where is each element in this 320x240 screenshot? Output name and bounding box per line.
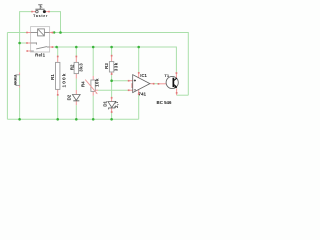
svg-text:2,7: 2,7: [114, 101, 119, 108]
op-amp IC1: minus mark: [134, 89, 136, 91]
relay Rel1: contact arm: [36, 47, 47, 49]
wire: Taster right down to coil bus: [49, 12, 60, 33]
wire: emitter to right rail: [177, 94, 189, 96]
relay Rel1: coil box: [38, 29, 45, 36]
LED D2: triangle: [72, 95, 80, 101]
wire: contact bus y=47: [53, 47, 176, 73]
svg-text:R1: R1: [50, 74, 55, 80]
battery AKKU: pin top: [19, 72, 21, 75]
relay Rel1: coil lead right: [44, 32, 49, 34]
wire: node A down to zener D1: [111, 81, 113, 98]
relay Rel1: coil pin left: [27, 32, 31, 34]
op-amp IC1: V- pin: [138, 90, 140, 95]
svg-text:R3: R3: [104, 63, 109, 69]
op-amp IC1: inverting input pin: [128, 89, 132, 91]
resistor R2: pin top: [75, 56, 77, 62]
wire: LED D2 bottom: [75, 105, 77, 119]
wire: op-amp V- to bottom bus: [138, 94, 140, 119]
op-amp IC1: offset marker: [131, 83, 133, 88]
transistor T1: circle: [166, 76, 178, 88]
transistor T1: base pin: [158, 83, 166, 85]
trimmer R4: body: [91, 80, 95, 91]
svg-text:T1: T1: [164, 73, 169, 78]
junction bottom bus battery: [18, 118, 21, 121]
relay Rel1: contact common lead: [31, 42, 37, 44]
junction node A: [110, 79, 113, 82]
zener D1: cathode bar with hooks: [109, 106, 115, 109]
trimmer R4: wiper arrow: [85, 80, 97, 94]
relay Rel1: unconnected pin left: [27, 50, 31, 52]
wire: trimmer R4 column bottom: [92, 96, 94, 120]
pushbutton Taster: left pin: [32, 11, 36, 13]
relay Rel1: contact fixed tick: [36, 42, 38, 44]
wire: R1 column top: [57, 47, 59, 56]
pushbutton Taster: spring tick: [41, 6, 43, 7]
svg-text:33k: 33k: [114, 62, 119, 71]
relay Rel1: body box: [31, 27, 50, 52]
resistor R2: body: [74, 62, 78, 73]
resistor R2: pin bottom: [75, 74, 77, 79]
wire: left rail: [6, 33, 8, 120]
pushbutton Taster: actuator handle: [38, 4, 42, 6]
battery AKKU: rail along body: [19, 75, 21, 85]
svg-text:10k: 10k: [95, 78, 100, 87]
wire: op-amp V+ from bus: [138, 47, 140, 73]
wire: trimmer R4 column top: [92, 47, 94, 76]
battery AKKU: body: [16, 75, 20, 86]
pushbutton Taster: right contact dot: [43, 10, 46, 13]
resistor R1: body: [56, 62, 60, 89]
svg-text:IC1: IC1: [140, 73, 147, 78]
pushbutton Taster: bridge bar: [35, 8, 44, 10]
svg-text:R2: R2: [70, 64, 75, 70]
battery AKKU: pin bottom: [19, 85, 21, 88]
junction contact bus R1: [55, 46, 58, 49]
wire: R2 to LED D2: [75, 79, 77, 90]
svg-text:D1: D1: [103, 100, 108, 106]
wire: R2 column top: [75, 47, 77, 56]
resistor R3: body: [109, 62, 113, 72]
zener D1: triangle: [108, 102, 116, 108]
pushbutton Taster: left contact circle: [36, 10, 39, 13]
LED D2: pin bottom: [75, 101, 77, 105]
wire: coil left feed: [7, 32, 26, 34]
transistor T1: collector pin: [175, 73, 177, 79]
svg-text:BC 546: BC 546: [157, 100, 172, 105]
zener D1: pin top: [111, 97, 113, 101]
wire: coil bus y=32.5 to right rail: [53, 33, 188, 96]
junction at relay coil pin end: [53, 31, 55, 33]
op-amp IC1: output pin: [150, 83, 154, 85]
wire: zener D1 bottom: [111, 113, 113, 120]
junction on coil bus at taster drop: [59, 31, 62, 34]
resistor R1: pin top: [57, 56, 59, 62]
junction contact bus R3: [110, 46, 113, 49]
svg-text:R4: R4: [81, 81, 86, 87]
zener D1: pin bottom: [111, 108, 113, 112]
svg-text:741: 741: [138, 91, 146, 96]
wire: relay contact common from battery rail: [20, 42, 27, 44]
relay Rel1: contact out pin right: [50, 46, 53, 48]
svg-text:D2: D2: [67, 94, 72, 100]
relay Rel1: coil pin right: [50, 32, 53, 34]
op-amp IC1: plus mark: [134, 79, 136, 81]
resistor R3: pin top: [111, 55, 113, 61]
junction bottom bus R4: [92, 118, 95, 121]
junction contact bus R4: [92, 46, 95, 49]
wire: R1 column bottom: [57, 95, 59, 119]
pushbutton Taster: right pin: [46, 11, 49, 13]
wire: bottom bus: [7, 118, 138, 120]
wire: battery rail lower segment: [19, 88, 21, 120]
resistor R1: pin bottom: [57, 89, 59, 95]
pushbutton Taster: actuator stem: [39, 5, 41, 9]
junction bottom bus D1: [110, 118, 113, 121]
transistor T1: collector lead: [174, 78, 177, 80]
relay Rel1: NO lead: [31, 50, 34, 52]
wire: trimmer wiper to op-amp inverting input: [98, 89, 128, 91]
relay Rel1: coil diagonal: [38, 29, 44, 36]
junction battery rail to contact common: [18, 42, 21, 45]
svg-text:Taster: Taster: [33, 14, 48, 18]
relay Rel1: contact out lead: [47, 46, 50, 48]
relay Rel1: coil lead left: [31, 32, 38, 34]
junction contact bus R2: [75, 46, 78, 49]
junction contact bus op-amp V+: [137, 46, 140, 49]
wire: op-amp output to transistor base: [154, 83, 159, 85]
svg-text:100k: 100k: [61, 72, 67, 87]
wire: R3 bottom to node A: [111, 75, 113, 81]
resistor R3: pin bottom: [111, 72, 113, 75]
svg-text:Rel1: Rel1: [35, 53, 45, 58]
LED D2: pin top: [75, 90, 77, 94]
trimmer R4: pin top: [92, 76, 94, 80]
transistor T1: emitter pin: [176, 89, 178, 96]
wire: Taster left to battery rail corner: [20, 12, 32, 73]
svg-text:AKKU: AKKU: [13, 74, 17, 85]
LED D2: cathode bar: [73, 100, 79, 102]
transistor T1: emitter lead with arrow: [174, 85, 176, 87]
op-amp IC1: triangle body: [133, 75, 150, 93]
wire: node A to op-amp non-inverting input: [112, 80, 129, 82]
junction bottom bus R1: [56, 118, 59, 121]
trimmer R4: wiper pin: [95, 89, 98, 91]
op-amp IC1: V+ pin: [138, 73, 140, 78]
junction bottom bus LED: [75, 118, 78, 121]
relay Rel1: contact common pin left: [27, 42, 31, 44]
trimmer R4: pin bottom: [92, 91, 94, 95]
wire: R3 column top: [111, 47, 113, 55]
svg-text:3k3: 3k3: [78, 63, 83, 72]
transistor T1: base bar: [173, 78, 175, 87]
op-amp IC1: non-inverting input pin: [128, 80, 132, 82]
